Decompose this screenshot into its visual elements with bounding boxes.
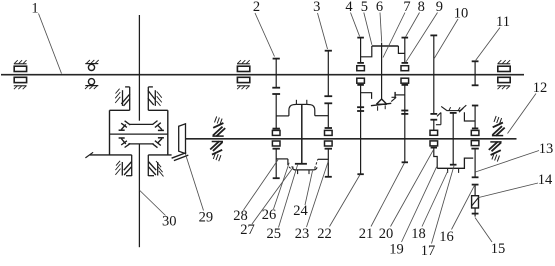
leader line for label 24 [305,171,313,205]
driven wheel on shaft II (x=433.8) [430,120,438,169]
svg-text:8: 8 [418,0,425,15]
jaw clutch lower half / shift collar (below shaft II) [276,159,328,174]
svg-text:23: 23 [295,226,310,242]
bevel gear set, lower side gear [119,138,164,148]
leader line for label 1 [39,14,62,74]
leader line for label 22 [330,175,361,227]
wheel 13/14 column (x=475, shaft II down) [471,106,479,178]
leader line for label 4 [351,13,360,37]
svg-text:18: 18 [411,226,426,242]
svg-text:9: 9 [436,0,443,15]
gear 5 (sliding gear on shaft I, x=404.8) [401,38,409,71]
shift sleeve 6 (horizontal bar) [372,43,399,46]
fork link from gear 4 to sleeve [361,46,372,57]
svg-text:26: 26 [262,207,277,223]
svg-text:14: 14 [538,172,553,188]
lower end of column x=475 (label 15 target) [472,208,479,217]
svg-text:6: 6 [376,0,383,15]
upper bearing pillars of vertical shaft [125,87,153,110]
stem 7 (vertical, sleeve to pawl) [381,46,383,99]
lower-left rolling bearing (slashed block) [115,161,131,176]
vertical shaft (centre line), upper segment [138,15,140,121]
fork link from sleeve to gear 5 [398,46,404,53]
gear 22 long pinion (x=360.5, shaft I to below shaft II) [357,78,365,174]
leader line for label 5 [364,13,372,45]
svg-text:21: 21 [359,226,374,242]
leader line for label 23 [307,160,329,227]
svg-text:16: 16 [439,229,454,245]
leader line for label 27 [252,167,294,224]
svg-text:4: 4 [345,0,353,15]
lower-right rolling bearing (slashed block) [148,161,163,176]
jaw clutch sliding stem (x=301.8) [301,104,303,163]
jaw clutch upper half (x=302, above shaft II) [276,100,328,116]
lower hook on gear-4 line [361,93,372,99]
rolling bearing on shaft I at x=91.5 [85,60,99,89]
svg-text:30: 30 [162,213,177,229]
leader line for label 30 [140,191,166,216]
gear 11 (on shaft I, x=475) [472,61,479,85]
leader line for label 18 [422,171,448,227]
svg-text:7: 7 [403,0,410,15]
gear 3 (on shaft I, x=328) [324,50,332,96]
jaw clutch wings (x=453.4, above its cap) [441,105,466,111]
bearing block on shaft I at x=243.6 [237,60,250,89]
gear 10 (idler, x=433.8, spans shaft I) [430,35,437,114]
svg-text:25: 25 [267,226,282,242]
svg-text:13: 13 [539,141,554,157]
cross shaft of bevel set (middle line) [110,133,168,135]
svg-text:3: 3 [313,0,320,15]
svg-text:17: 17 [421,243,436,259]
bevel gear set, upper side gear [119,121,164,131]
upper-right rolling bearing (slashed block) [148,90,162,106]
svg-text:5: 5 [361,0,368,15]
gearbox housing (centre box) [90,110,172,155]
leader line for label 16 [452,185,475,230]
lower bearing pillars of vertical shaft [126,155,154,176]
leader line for label 12 [508,94,537,134]
leader line for label 25 [279,165,298,228]
leader line for label 3 [318,13,328,49]
frame anchor, left end of shaft II [210,116,225,161]
svg-text:22: 22 [317,226,332,242]
gear 4 (sliding gear on shaft I, x=360.5) [357,38,365,71]
mesh marks on column x=475 (label 13 target) [472,177,479,195]
svg-text:29: 29 [199,209,214,225]
hook link left of column x=475 [459,108,475,121]
axle stub break mark (left of box) [85,152,93,158]
svg-text:2: 2 [253,0,260,15]
svg-text:27: 27 [240,222,255,238]
svg-text:12: 12 [533,80,548,96]
svg-text:10: 10 [454,5,469,21]
leader line for label 19 [402,167,437,242]
leader line for label 7 [383,13,405,58]
vertical shaft (centre line), lower segment [138,144,140,247]
cone pulley 29 (trapezoid) [179,124,186,154]
svg-text:28: 28 [233,208,248,224]
svg-text:1: 1 [31,0,38,16]
svg-text:11: 11 [496,14,510,30]
shaft I (input shaft, horizontal top) [1,74,524,76]
leader line for label 29 [186,154,204,210]
leader line for label 17 [432,166,455,244]
upper-left rolling bearing (slashed block) [115,89,130,106]
leader line for label 9 [406,13,438,62]
sliding sleeve spindle (x=453.4) [450,113,457,165]
leader line for label 20 [391,150,434,226]
leader line for label 26 [274,163,290,209]
shaft II (output/counter shaft, horizontal lower) [186,138,517,140]
frame anchor, right end of shaft II [489,116,505,162]
svg-text:24: 24 [293,203,308,219]
leader line for label 8 [406,13,420,37]
leader line for label 15 [475,218,492,243]
gear 21 long pinion (x=404.8, shaft I to shaft II) [401,78,409,162]
latch bracket at top of wheel (label 9 target) [436,113,441,125]
bearing block on shaft I at x=504.0 [497,60,510,89]
svg-text:15: 15 [491,241,506,257]
one-way clutch 14 (box with diagonal) [472,196,479,208]
bearing block on shaft I at x=20.4 [14,60,27,89]
friction band below cone (double diagonal) [172,153,189,161]
leader line for label 11 [476,28,500,61]
leader line for label 21 [371,163,404,227]
svg-text:19: 19 [389,241,404,257]
free-wheel arrow beside pawl [391,97,396,101]
gear 2 (on shaft I, x=276) [272,58,280,88]
leader line for label 10 [434,19,458,59]
svg-text:20: 20 [379,226,394,242]
lower tie bar on gear-5 line [395,92,405,98]
leader line for label 14 [479,183,538,198]
gear 23/28 lower wheel on shaft II (x=276) [272,94,280,178]
grounded pawl under stem 7 [371,99,391,111]
leader line for label 13 [475,151,539,173]
leader line for label 2 [255,13,275,57]
lower wheel on shaft II (x=328) [324,103,332,177]
shift channel rail below shaft II (x=437..473) [437,158,473,173]
leader line for label 6 [380,13,382,42]
leader line for label 28 [244,159,279,210]
